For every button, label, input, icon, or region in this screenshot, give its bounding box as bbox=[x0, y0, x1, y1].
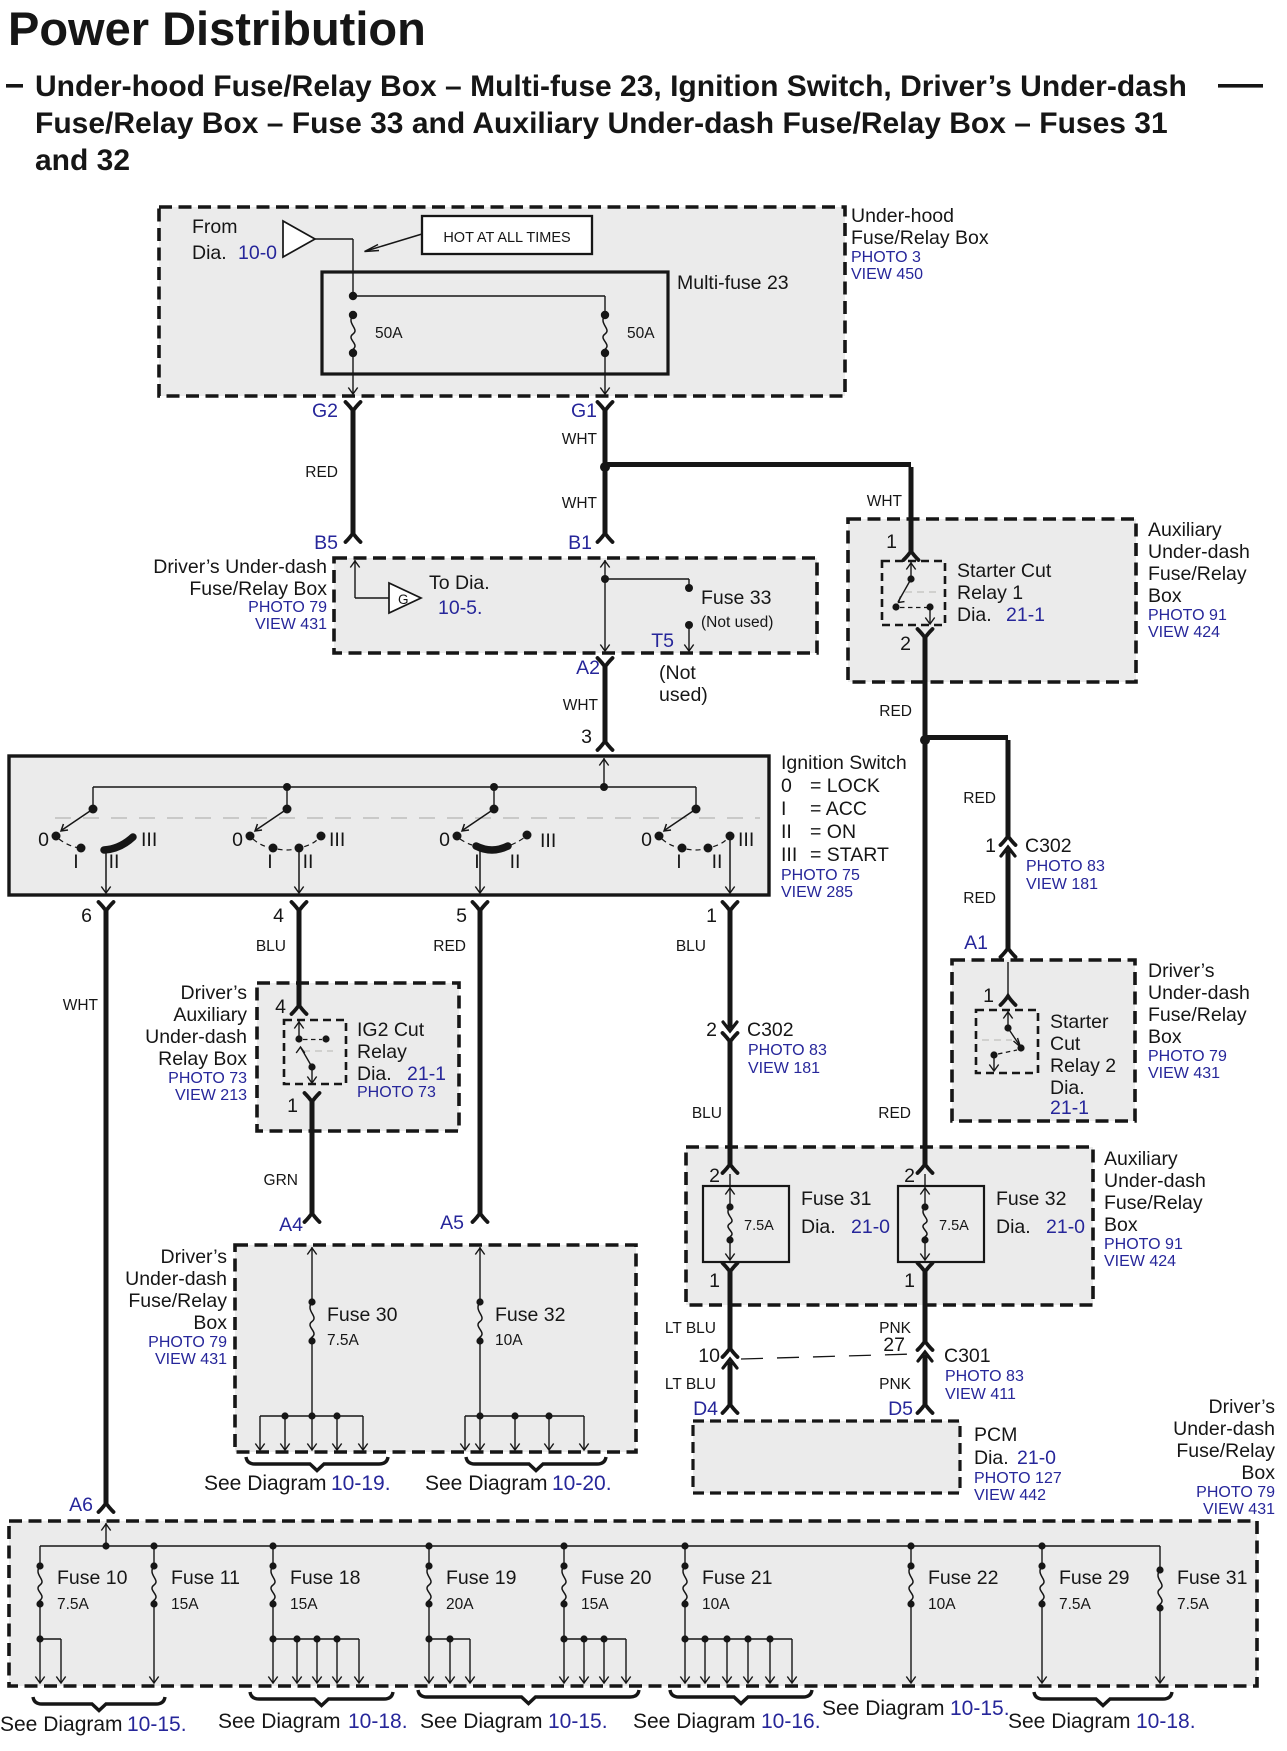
svg-text:4: 4 bbox=[273, 905, 284, 927]
fuse 29 (7.5A) bbox=[1038, 1562, 1045, 1569]
svg-text:Fuse/Relay Box: Fuse/Relay Box bbox=[189, 578, 327, 600]
svg-text:VIEW 442: VIEW 442 bbox=[974, 1487, 1046, 1504]
svg-text:7.5A: 7.5A bbox=[1177, 1596, 1210, 1613]
ignition switch wafer pivot bbox=[490, 805, 499, 814]
distribution arrow bbox=[603, 1639, 605, 1682]
svg-text:Fuse 31: Fuse 31 bbox=[1177, 1567, 1247, 1589]
svg-text:A2: A2 bbox=[576, 657, 600, 679]
wiper II-III thick arc bbox=[104, 837, 133, 850]
distribution arrow bbox=[336, 1416, 338, 1449]
fuse 11 (15A) bbox=[150, 1562, 157, 1569]
svg-text:21-1: 21-1 bbox=[1050, 1097, 1089, 1119]
svg-text:2: 2 bbox=[904, 1165, 915, 1187]
svg-text:HOT AT ALL TIMES: HOT AT ALL TIMES bbox=[443, 230, 570, 246]
svg-text:0: 0 bbox=[781, 775, 792, 797]
distribution arrow bbox=[479, 1416, 481, 1449]
distribution arrow bbox=[625, 1639, 627, 1682]
svg-text:C302: C302 bbox=[747, 1019, 794, 1041]
svg-text:Dia.: Dia. bbox=[357, 1063, 392, 1085]
svg-text:See Diagram: See Diagram bbox=[425, 1472, 548, 1495]
svg-text:VIEW 431: VIEW 431 bbox=[1203, 1501, 1275, 1518]
svg-text:See Diagram: See Diagram bbox=[420, 1710, 543, 1733]
distribution arrow bbox=[296, 1639, 298, 1682]
svg-text:(Not used): (Not used) bbox=[701, 614, 773, 631]
svg-text:LT BLU: LT BLU bbox=[665, 1320, 716, 1337]
to dia G triangle bbox=[389, 583, 421, 613]
bus tap node bbox=[425, 1542, 432, 1549]
svg-text:See Diagram: See Diagram bbox=[218, 1710, 341, 1733]
svg-text:PHOTO 83: PHOTO 83 bbox=[748, 1042, 827, 1059]
svg-text:15A: 15A bbox=[581, 1596, 609, 1613]
svg-text:Under-dash: Under-dash bbox=[125, 1268, 227, 1290]
svg-text:Dia.: Dia. bbox=[974, 1447, 1009, 1469]
svg-text:used): used) bbox=[659, 684, 708, 706]
svg-text:10: 10 bbox=[698, 1345, 720, 1367]
svg-text:21-0: 21-0 bbox=[1017, 1447, 1056, 1469]
svg-text:From: From bbox=[192, 216, 238, 238]
svg-text:WHT: WHT bbox=[563, 697, 599, 714]
svg-text:III: III bbox=[141, 829, 157, 851]
svg-text:1: 1 bbox=[985, 835, 996, 857]
svg-text:I: I bbox=[73, 851, 78, 873]
bus junction nodes bbox=[283, 783, 291, 791]
distribution arrow bbox=[284, 1416, 286, 1449]
svg-text:10-15.: 10-15. bbox=[127, 1713, 187, 1736]
wire RED C302 to A1 bbox=[1006, 850, 1011, 948]
wire RED relay1 pin2 down bbox=[923, 638, 928, 1164]
bus tap node bbox=[560, 1542, 567, 1549]
B1 through line bbox=[604, 560, 606, 651]
contact 0 bbox=[52, 832, 61, 841]
starter cut relay 1 box bbox=[882, 561, 945, 625]
wire from triangle to multi-fuse bbox=[315, 238, 353, 240]
brace fuse 21 bbox=[670, 1690, 812, 1704]
heading left dash bbox=[6, 84, 23, 88]
fuse 31 box bbox=[703, 1186, 789, 1262]
distribution arrow bbox=[704, 1639, 706, 1682]
A6 entry arrow bbox=[105, 1523, 107, 1546]
svg-text:50A: 50A bbox=[627, 325, 655, 342]
svg-text:50A: 50A bbox=[375, 325, 403, 342]
contact I bbox=[678, 844, 687, 853]
entry arrow bbox=[311, 1247, 313, 1302]
terminal A5 bbox=[473, 1213, 488, 1222]
fuse 10 (7.5A) bbox=[36, 1562, 43, 1569]
distribution arrow bbox=[726, 1639, 728, 1682]
distribution arrow bbox=[791, 1639, 793, 1682]
wire LT BLU fuse31 to C301 bbox=[728, 1272, 733, 1348]
svg-text:Dia.: Dia. bbox=[1050, 1077, 1085, 1099]
driver's auxiliary under-dash relay box bbox=[257, 983, 459, 1131]
distribution arrow bbox=[358, 1639, 360, 1682]
svg-text:Fuse/Relay: Fuse/Relay bbox=[1148, 1004, 1247, 1026]
svg-text:Fuse/Relay: Fuse/Relay bbox=[1104, 1192, 1203, 1214]
distribution arrow bbox=[449, 1639, 451, 1682]
svg-text:PHOTO 73: PHOTO 73 bbox=[168, 1070, 247, 1087]
svg-text:PNK: PNK bbox=[879, 1376, 912, 1393]
svg-text:D5: D5 bbox=[888, 1398, 913, 1420]
wire BLU pin4 to IG2 relay bbox=[297, 911, 302, 1005]
svg-text:4: 4 bbox=[275, 996, 286, 1018]
svg-text:Ignition Switch: Ignition Switch bbox=[781, 752, 907, 774]
wire PNK C301 to D5 bbox=[923, 1355, 928, 1404]
svg-text:Relay Box: Relay Box bbox=[158, 1048, 247, 1070]
wire WHT A2 to ignition bbox=[603, 667, 608, 741]
svg-text:(Not: (Not bbox=[659, 662, 696, 684]
svg-text:G: G bbox=[398, 592, 409, 607]
distribution arrow bbox=[311, 1416, 313, 1449]
svg-text:21-1: 21-1 bbox=[407, 1063, 446, 1085]
output sub-bus bbox=[272, 1604, 274, 1639]
svg-text:15A: 15A bbox=[290, 1596, 318, 1613]
output arrow bbox=[1159, 1608, 1161, 1682]
svg-text:Driver’s: Driver’s bbox=[181, 982, 248, 1004]
svg-text:Auxiliary: Auxiliary bbox=[173, 1004, 247, 1026]
driver's under-dash fuse/relay box (relay 2) bbox=[952, 960, 1135, 1121]
svg-text:III: III bbox=[781, 844, 797, 866]
contact arc bbox=[253, 838, 319, 850]
distribution arrow bbox=[769, 1639, 771, 1682]
svg-text:PHOTO 73: PHOTO 73 bbox=[357, 1084, 436, 1101]
svg-text:C302: C302 bbox=[1025, 835, 1072, 857]
terminal B1 bbox=[598, 533, 613, 542]
svg-text:PHOTO 127: PHOTO 127 bbox=[974, 1470, 1062, 1487]
svg-text:7.5A: 7.5A bbox=[744, 1218, 774, 1234]
svg-text:10-18.: 10-18. bbox=[348, 1710, 408, 1733]
svg-text:1: 1 bbox=[706, 905, 717, 927]
HOT AT ALL TIMES box bbox=[422, 216, 592, 254]
svg-text:A6: A6 bbox=[69, 1494, 93, 1516]
svg-text:Fuse 10: Fuse 10 bbox=[57, 1567, 128, 1589]
wire BLU into IG2 pin4 bbox=[297, 983, 302, 1005]
svg-text:7.5A: 7.5A bbox=[327, 1332, 360, 1349]
contact I bbox=[77, 844, 86, 853]
svg-text:Dia.: Dia. bbox=[957, 604, 992, 626]
wiper I-II thick arc bbox=[476, 846, 508, 850]
svg-text:1: 1 bbox=[886, 531, 897, 553]
svg-text:Box: Box bbox=[1241, 1462, 1275, 1484]
svg-text:2: 2 bbox=[709, 1165, 720, 1187]
svg-text:RED: RED bbox=[963, 790, 996, 807]
wire BLU C302 to fuse 31 bbox=[728, 1042, 733, 1164]
fuse 32 element 7.5A bbox=[924, 1174, 926, 1207]
contact III bbox=[523, 831, 532, 840]
svg-text:Fuse/Relay: Fuse/Relay bbox=[1176, 1440, 1275, 1462]
svg-text:PHOTO 75: PHOTO 75 bbox=[781, 867, 860, 884]
svg-text:PHOTO 83: PHOTO 83 bbox=[945, 1368, 1024, 1385]
svg-text:Fuse 31: Fuse 31 bbox=[801, 1188, 871, 1210]
driver's under-dash fuse/relay box (fuse 30) bbox=[235, 1245, 636, 1452]
wire RED into fuse32 pin2 bbox=[923, 1147, 928, 1164]
auxiliary under-dash fuse/relay box (fuses 31 32) bbox=[686, 1147, 1093, 1305]
link wire between fuses bbox=[353, 295, 605, 297]
svg-text:BLU: BLU bbox=[256, 938, 286, 955]
svg-text:Fuse/Relay: Fuse/Relay bbox=[1148, 563, 1247, 585]
svg-text:Under-hood: Under-hood bbox=[851, 205, 954, 227]
contact arc bbox=[662, 838, 728, 850]
svg-text:II: II bbox=[781, 821, 792, 843]
contact III bbox=[317, 832, 326, 841]
svg-text:III: III bbox=[329, 829, 345, 851]
distribution arrow bbox=[583, 1639, 585, 1682]
svg-text:7.5A: 7.5A bbox=[939, 1218, 969, 1234]
svg-text:15A: 15A bbox=[171, 1596, 199, 1613]
pin 3 entry arrow bbox=[603, 758, 605, 787]
contact 0 bbox=[246, 832, 255, 841]
contact I bbox=[269, 844, 278, 853]
svg-text:II: II bbox=[712, 851, 723, 873]
svg-text:Dia.: Dia. bbox=[801, 1216, 836, 1238]
PCM box bbox=[693, 1421, 960, 1493]
svg-text:G2: G2 bbox=[312, 400, 338, 422]
svg-text:VIEW 424: VIEW 424 bbox=[1104, 1253, 1176, 1270]
fuse 20 (15A) bbox=[560, 1562, 567, 1569]
brace fuses 19-20 bbox=[418, 1690, 639, 1704]
fuse 32 element bbox=[476, 1298, 483, 1305]
svg-text:Driver’s: Driver’s bbox=[161, 1246, 228, 1268]
junction to fuse 33 bbox=[601, 575, 609, 583]
distribution arrow bbox=[60, 1639, 62, 1682]
contact 0 bbox=[655, 832, 664, 841]
svg-text:PHOTO 79: PHOTO 79 bbox=[248, 599, 327, 616]
wire PNK fuse32 to C301 bbox=[923, 1272, 928, 1341]
svg-text:To Dia.: To Dia. bbox=[429, 572, 490, 594]
svg-text:WHT: WHT bbox=[562, 495, 598, 512]
svg-text:10-20.: 10-20. bbox=[552, 1472, 612, 1495]
brace see diagram 10-19 bbox=[246, 1457, 388, 1471]
wire WHT into relay1 pin1 bbox=[909, 519, 914, 551]
svg-text:VIEW 450: VIEW 450 bbox=[851, 266, 923, 283]
svg-text:See Diagram: See Diagram bbox=[1008, 1710, 1131, 1733]
brace see diagram 10-20 bbox=[466, 1457, 606, 1471]
svg-text:Relay 2: Relay 2 bbox=[1050, 1055, 1116, 1077]
svg-text:6: 6 bbox=[81, 905, 92, 927]
svg-text:0: 0 bbox=[439, 829, 450, 851]
svg-text:PHOTO 91: PHOTO 91 bbox=[1104, 1236, 1183, 1253]
svg-text:Under-hood Fuse/Relay Box – Mu: Under-hood Fuse/Relay Box – Multi-fuse 2… bbox=[35, 70, 1187, 103]
ignition switch wafer pivot bbox=[692, 805, 701, 814]
svg-text:10-15.: 10-15. bbox=[548, 1710, 608, 1733]
svg-text:PHOTO 91: PHOTO 91 bbox=[1148, 607, 1227, 624]
svg-text:Dia.: Dia. bbox=[996, 1216, 1031, 1238]
wire WHT G1 down bbox=[603, 411, 608, 533]
svg-text:VIEW 181: VIEW 181 bbox=[748, 1060, 820, 1077]
contact 0 bbox=[453, 832, 462, 841]
svg-text:20A: 20A bbox=[446, 1596, 474, 1613]
svg-text:RED: RED bbox=[305, 464, 338, 481]
bus tap node bbox=[907, 1542, 914, 1549]
svg-text:21-0: 21-0 bbox=[1046, 1216, 1085, 1238]
svg-text:PHOTO 79: PHOTO 79 bbox=[148, 1334, 227, 1351]
contact III bbox=[726, 832, 735, 841]
svg-text:= START: = START bbox=[810, 844, 889, 866]
svg-text:A5: A5 bbox=[440, 1212, 464, 1234]
svg-text:RED: RED bbox=[963, 890, 996, 907]
distribution arrow bbox=[747, 1639, 749, 1682]
bus tap node bbox=[681, 1542, 688, 1549]
svg-text:VIEW 285: VIEW 285 bbox=[781, 884, 853, 901]
junction node on left fuse bbox=[349, 292, 357, 300]
svg-text:Fuse 32: Fuse 32 bbox=[996, 1188, 1066, 1210]
svg-text:10A: 10A bbox=[702, 1596, 730, 1613]
bus tap node bbox=[269, 1542, 276, 1549]
svg-text:Box: Box bbox=[1148, 1026, 1182, 1048]
distribution arrow bbox=[428, 1639, 430, 1682]
svg-text:2: 2 bbox=[706, 1019, 717, 1041]
svg-text:Box: Box bbox=[193, 1312, 227, 1334]
fuse 50A right bbox=[601, 311, 609, 319]
heading right dash bbox=[1218, 84, 1263, 88]
distribution arrow bbox=[39, 1639, 41, 1682]
wire WHT pin6 to A6 bbox=[104, 911, 109, 1503]
svg-text:WHT: WHT bbox=[867, 493, 903, 510]
svg-text:LT BLU: LT BLU bbox=[665, 1376, 716, 1393]
svg-text:I: I bbox=[474, 851, 479, 873]
fuse 32 box bbox=[898, 1186, 984, 1262]
svg-text:= LOCK: = LOCK bbox=[810, 775, 880, 797]
relay 1 internals bbox=[910, 562, 912, 579]
svg-text:3: 3 bbox=[581, 726, 592, 748]
svg-text:Under-dash: Under-dash bbox=[1104, 1170, 1206, 1192]
distribution arrow bbox=[583, 1416, 585, 1449]
svg-text:Fuse 18: Fuse 18 bbox=[290, 1567, 360, 1589]
distribution arrow bbox=[259, 1416, 261, 1449]
svg-text:D4: D4 bbox=[693, 1398, 718, 1420]
svg-text:B5: B5 bbox=[314, 532, 338, 554]
wire RED G2 to B5 bbox=[351, 411, 356, 533]
svg-text:1: 1 bbox=[983, 985, 994, 1007]
svg-text:See Diagram: See Diagram bbox=[204, 1472, 327, 1495]
svg-text:Under-dash: Under-dash bbox=[1148, 541, 1250, 563]
B5 entry arrow bbox=[354, 560, 356, 598]
wire GRN IG2 to A4 bbox=[310, 1102, 315, 1213]
svg-text:Fuse 33: Fuse 33 bbox=[701, 587, 771, 609]
svg-text:RED: RED bbox=[878, 1105, 911, 1122]
driver's under-dash fuse/relay box (fuse 33) bbox=[334, 558, 817, 653]
svg-text:Fuse 11: Fuse 11 bbox=[171, 1567, 240, 1589]
svg-text:PHOTO 83: PHOTO 83 bbox=[1026, 858, 1105, 875]
svg-text:See Diagram: See Diagram bbox=[822, 1697, 945, 1720]
svg-text:= ON: = ON bbox=[810, 821, 856, 843]
svg-text:I: I bbox=[676, 851, 681, 873]
entry arrow bbox=[479, 1247, 481, 1302]
output sub-bus bbox=[428, 1604, 430, 1639]
output sub-bus bbox=[563, 1604, 565, 1639]
svg-text:10-19.: 10-19. bbox=[331, 1472, 391, 1495]
svg-text:21-0: 21-0 bbox=[851, 1216, 890, 1238]
wire to G triangle bbox=[355, 597, 389, 599]
fuse 50A left bbox=[349, 311, 357, 319]
fuse 31 (7.5A) bbox=[1156, 1566, 1163, 1573]
svg-text:Relay: Relay bbox=[357, 1041, 407, 1063]
svg-text:RED: RED bbox=[879, 703, 912, 720]
terminal A4 bbox=[305, 1213, 320, 1222]
svg-text:Box: Box bbox=[1104, 1214, 1138, 1236]
ignition switch wafer pivot bbox=[89, 805, 98, 814]
distribution arrow bbox=[514, 1416, 516, 1449]
ignition switch wafer pivot bbox=[283, 805, 292, 814]
svg-text:T5: T5 bbox=[651, 630, 674, 652]
svg-text:Under-dash: Under-dash bbox=[1148, 982, 1250, 1004]
svg-text:BLU: BLU bbox=[692, 1105, 722, 1122]
svg-text:Fuse 20: Fuse 20 bbox=[581, 1567, 652, 1589]
svg-text:2: 2 bbox=[900, 633, 911, 655]
svg-text:VIEW 431: VIEW 431 bbox=[155, 1351, 227, 1368]
distribution arrow bbox=[336, 1639, 338, 1682]
svg-text:Dia.: Dia. bbox=[192, 242, 227, 264]
switch output line bbox=[479, 850, 481, 893]
svg-text:PHOTO 79: PHOTO 79 bbox=[1196, 1484, 1275, 1501]
fuse 18 (15A) bbox=[269, 1562, 276, 1569]
svg-text:Relay 1: Relay 1 bbox=[957, 582, 1023, 604]
svg-text:Under-dash: Under-dash bbox=[145, 1026, 247, 1048]
svg-text:Starter Cut: Starter Cut bbox=[957, 560, 1052, 582]
distribution arrow bbox=[684, 1639, 686, 1682]
distribution arrow bbox=[362, 1416, 364, 1449]
fuse 33 (not used) bbox=[685, 584, 693, 592]
output sub-bus bbox=[39, 1604, 41, 1639]
svg-text:See Diagram: See Diagram bbox=[633, 1710, 756, 1733]
svg-text:I: I bbox=[781, 798, 786, 820]
svg-text:G1: G1 bbox=[571, 400, 597, 422]
svg-text:VIEW 213: VIEW 213 bbox=[175, 1087, 247, 1104]
svg-text:C301: C301 bbox=[944, 1345, 991, 1367]
bus tap node bbox=[1038, 1542, 1045, 1549]
svg-text:See Diagram: See Diagram bbox=[0, 1713, 123, 1736]
C301 link dashed line bbox=[741, 1354, 914, 1359]
bottom driver's under-dash fuse/relay box bbox=[9, 1521, 1257, 1686]
svg-text:VIEW 431: VIEW 431 bbox=[255, 616, 327, 633]
brace fuse 18 bbox=[250, 1692, 393, 1706]
svg-text:Fuse/Relay Box – Fuse 33 and A: Fuse/Relay Box – Fuse 33 and Auxiliary U… bbox=[35, 107, 1168, 140]
branch wire WHT to starter cut relay 1 bbox=[605, 462, 911, 467]
svg-text:Driver’s Under-dash: Driver’s Under-dash bbox=[153, 556, 327, 578]
svg-text:PHOTO 79: PHOTO 79 bbox=[1148, 1048, 1227, 1065]
svg-text:WHT: WHT bbox=[562, 431, 598, 448]
svg-text:5: 5 bbox=[456, 905, 467, 927]
wire RED pin5 to A5 bbox=[478, 911, 483, 1213]
svg-text:10-15.: 10-15. bbox=[950, 1697, 1010, 1720]
bottom box bus wire bbox=[40, 1545, 1160, 1547]
terminal A6 bbox=[99, 1503, 114, 1512]
svg-text:IG2 Cut: IG2 Cut bbox=[357, 1019, 425, 1041]
terminal B5 bbox=[346, 533, 361, 542]
svg-text:GRN: GRN bbox=[264, 1172, 298, 1189]
contact II bbox=[295, 844, 304, 853]
switch output line bbox=[298, 850, 300, 893]
svg-text:Driver’s: Driver’s bbox=[1209, 1396, 1276, 1418]
svg-text:B1: B1 bbox=[568, 532, 592, 554]
svg-text:7.5A: 7.5A bbox=[1059, 1596, 1092, 1613]
svg-text:PCM: PCM bbox=[974, 1424, 1017, 1446]
IG2 cut relay box bbox=[284, 1020, 346, 1084]
ignition internal bus wire bbox=[93, 786, 696, 788]
svg-text:and 32: and 32 bbox=[35, 144, 130, 177]
svg-text:A1: A1 bbox=[964, 932, 988, 954]
distribution arrow bbox=[563, 1639, 565, 1682]
svg-text:1: 1 bbox=[709, 1270, 720, 1292]
output arrow bbox=[910, 1604, 912, 1682]
distribution arrow bbox=[469, 1639, 471, 1682]
svg-text:III: III bbox=[738, 829, 754, 851]
svg-text:Driver’s: Driver’s bbox=[1148, 960, 1215, 982]
svg-text:II: II bbox=[510, 851, 521, 873]
contact II bbox=[704, 844, 713, 853]
distribution arrow bbox=[272, 1639, 274, 1682]
fuse 22 (10A) bbox=[907, 1562, 914, 1569]
from dia triangle symbol bbox=[283, 221, 315, 257]
svg-text:10A: 10A bbox=[495, 1332, 523, 1349]
